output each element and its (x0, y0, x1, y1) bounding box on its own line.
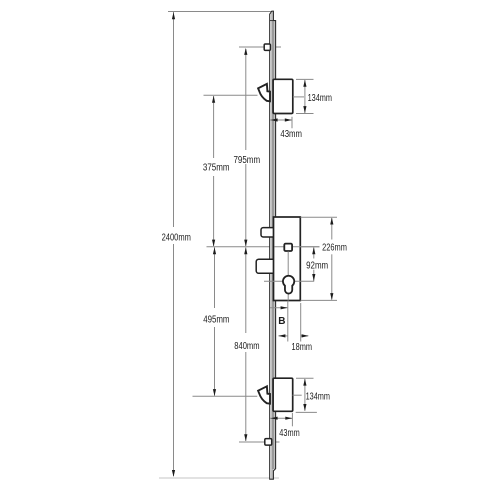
wire cylinder centerline extension below gearbox (287, 301, 289, 342)
svg-text:795mm: 795mm (234, 155, 261, 166)
arrow 375mm down (212, 240, 215, 247)
wire 92mm dimension line upper segment (313, 247, 315, 258)
arrow 226mm down (330, 293, 333, 300)
arrow 840mm up (244, 247, 247, 254)
svg-text:43mm: 43mm (279, 428, 299, 439)
svg-text:495mm: 495mm (203, 315, 229, 326)
arrow 226mm up (330, 218, 333, 225)
wire 495mm vertical dimension line upper segment (214, 247, 216, 308)
wire 375mm vertical dimension line lower segment (213, 176, 215, 246)
arrow 495mm up (213, 247, 216, 254)
arrow 795mm up (244, 48, 247, 55)
wire 134mm top extension line upper (296, 78, 314, 80)
wire spindle centerline inside gearbox redrawn (275, 246, 320, 248)
wire gearbox right edge extension below (300, 303, 302, 342)
arrow 43mm top right (285, 118, 292, 121)
wire 18mm left tail (279, 335, 289, 337)
wire 92mm dimension line lower segment (313, 270, 315, 281)
svg-text:43mm: 43mm (280, 129, 302, 140)
arrow 840mm down (244, 434, 247, 441)
svg-text:840mm: 840mm (234, 341, 259, 352)
wire 43mm top boundary tick (291, 117, 293, 128)
wire 134mm top extension line lower (296, 113, 314, 115)
wire 226mm dimension line lower segment (331, 254, 333, 299)
wire 2400mm vertical dimension line upper segment (173, 12, 175, 227)
bottom hook gearbox case (273, 378, 293, 411)
arrow 43mm bottom right (285, 417, 292, 420)
arrow 375mm up (212, 96, 215, 103)
bottom hook bolt claw (258, 386, 270, 403)
wire 134mm bottom extension line lower (296, 411, 317, 413)
svg-text:92mm: 92mm (306, 261, 328, 272)
arrow 92mm down (312, 274, 315, 281)
central gearbox case (274, 217, 301, 301)
arrow 2400mm down (172, 470, 175, 477)
wire 226mm bottom extension line (301, 299, 338, 301)
wire 495mm vertical dimension line lower segment (214, 327, 216, 396)
svg-text:134mm: 134mm (308, 93, 332, 104)
arrow 43mm top left (271, 118, 278, 121)
arrow 2400mm up (172, 12, 175, 19)
wire 795mm vertical dimension line upper segment (245, 49, 247, 150)
faceplate top step (270, 20, 276, 22)
wire 375mm vertical dimension line upper segment (213, 96, 215, 158)
arrow 18mm right-pointing (278, 334, 285, 337)
arrow 134mm top down (303, 106, 306, 113)
wire top roller centerline y=47 (239, 46, 281, 48)
faceplate top narrow band (271, 12, 272, 21)
wire 795mm vertical dimension line lower segment (245, 164, 247, 246)
wire 226mm top extension line (301, 216, 338, 218)
wire cylinder vertical axis upper segment (287, 251, 289, 275)
arrow 495mm down (213, 389, 216, 396)
top roller cam peg (264, 44, 270, 50)
wire bottom hook extension line y=396.3 (193, 395, 258, 397)
wire 134mm bottom leader (293, 394, 302, 396)
wire 43mm bottom dimension line (270, 417, 292, 419)
top hook bolt claw (258, 84, 270, 101)
arrow 43mm bottom left (271, 417, 278, 420)
svg-text:226mm: 226mm (322, 243, 347, 254)
wire 134mm top leader (293, 96, 304, 98)
svg-text:134mm: 134mm (306, 391, 330, 402)
arrow 134mm bottom up (303, 379, 306, 386)
wire 2400mm vertical dimension line lower segment (173, 244, 175, 476)
spindle follower square (284, 244, 292, 251)
svg-text:B: B (278, 316, 285, 327)
wire cylinder vertical axis lower segment (287, 294, 289, 301)
wire backset B dimension line (270, 307, 287, 309)
wire 226mm dimension line upper segment (331, 218, 333, 240)
wire bottom baseline (159, 477, 279, 479)
deadbolt (256, 259, 275, 273)
svg-text:18mm: 18mm (292, 342, 313, 353)
faceplate inner gray band (271, 21, 274, 469)
arrow backset B right (281, 306, 288, 309)
arrow 92mm up (312, 247, 315, 254)
wire 43mm top dimension line (270, 119, 292, 121)
euro cylinder profile (283, 276, 294, 294)
arrow 795mm down (244, 240, 247, 247)
wire 840mm vertical dimension line lower segment (245, 352, 247, 441)
wire 43mm bottom boundary tick (291, 413, 293, 427)
faceplate bottom narrow band (271, 469, 273, 478)
wire bottom roller centerline y=442 (239, 441, 280, 443)
latch bolt (261, 228, 275, 237)
wire top extension line y=11.5 (168, 11, 272, 13)
wire spindle centerline y=246.8 (207, 246, 320, 248)
arrow 18mm left-pointing (302, 334, 309, 337)
bottom roller cam peg (265, 439, 272, 446)
wire 134mm bottom dimension line (304, 379, 306, 411)
svg-text:2400mm: 2400mm (162, 233, 191, 244)
wire 134mm bottom extension line upper (296, 377, 314, 379)
faceplate strip (270, 11, 276, 479)
wire 18mm right tail (301, 335, 309, 337)
wire cylinder centerline y=281.6 (264, 280, 314, 282)
arrow 134mm bottom down (303, 404, 306, 411)
wire 840mm vertical dimension line upper segment (245, 247, 247, 333)
wire 134mm top dimension line (304, 80, 306, 113)
top hook gearbox case (273, 79, 293, 113)
arrow 134mm top up (303, 80, 306, 87)
wire top hook extension line y=95.2 (204, 94, 258, 96)
svg-text:375mm: 375mm (203, 163, 230, 174)
